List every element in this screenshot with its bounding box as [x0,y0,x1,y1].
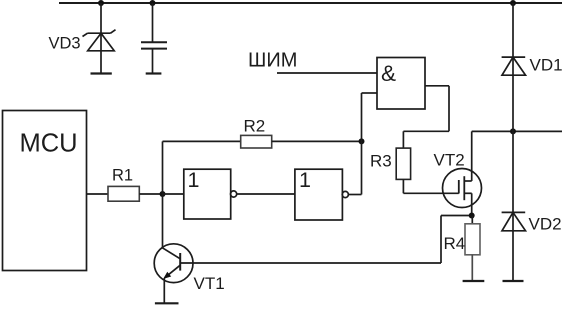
wire right rail at VD1 bottom [472,130,562,132]
svg-text:R1: R1 [112,167,133,185]
wire VT1 base up [440,216,442,264]
AND gate DD3 box [377,58,425,110]
wire AND output down [448,86,450,132]
wire node C to R4 [471,216,473,224]
wire VT1 base row [180,262,441,264]
wire node A to DD1 input [163,193,184,195]
wire VT1 collector vertical [162,194,164,248]
wire VD3 branch vertical [100,3,102,74]
wire R4 bottom to ground [471,255,473,281]
transistor VT1 (NPN) [154,244,193,283]
svg-text:ШИМ: ШИМ [248,50,297,72]
MCU block U1 [3,111,87,271]
inversion bubble DD1 output [231,191,237,197]
transistor VT2 (MOSFET) [443,169,482,208]
wire AND input 2 horizontal [362,92,378,94]
wire node B vertical (to AND input 2 and inverter DD2 output) [361,93,363,195]
svg-text:&: & [381,61,396,86]
wire ШИМ to AND input 1 [277,72,377,74]
zener diode VD3 [83,30,116,51]
wire VT1 emitter to ground [163,278,165,303]
diode VD1 [502,57,526,75]
wire R3 bottom down [402,179,404,193]
wire AND output return left [403,130,449,132]
svg-text:R4: R4 [444,234,466,253]
svg-text:VD2: VD2 [529,215,562,234]
ground under R4 [463,280,485,282]
wire DD1 out to DD2 in [237,193,295,195]
ground under VD2 [503,280,524,282]
inverter DD1 box [184,169,231,219]
wire top supply rail [59,2,562,4]
ground under VD3 [91,72,112,74]
wire DD2 out to node B vertical [348,194,361,196]
junction node B (R2 / inverter DD2 out / AND in2) [359,138,365,144]
junction top rail / VD3 [98,0,104,6]
wire R1 to node A [139,193,162,195]
ground under VT1 [155,302,179,304]
junction node C (VT2 source / R4 / VT1 base) [469,213,475,219]
resistor R1 [108,186,139,201]
svg-text:1: 1 [299,168,311,192]
junction top rail / C1 [150,0,156,6]
wire VT2 drain vertical [471,131,473,181]
svg-text:1: 1 [188,168,200,192]
wire AND output right [425,85,449,87]
junction VD1 bottom node [510,128,516,134]
capacitor C1 [141,42,167,48]
wire VT1 base to node C [441,215,472,217]
wire node A up to R2 row [162,141,164,194]
junction node A (R1 / DD1 in / R2 / VT1 collector) [160,191,166,197]
svg-text:R2: R2 [244,117,266,136]
wire R2 row left segment [163,140,241,142]
wire down to R3 [402,131,404,148]
wire MCU to R1 [87,193,109,195]
svg-text:VT1: VT1 [194,274,225,293]
wire VT2 source down to node C [471,193,473,215]
svg-text:VT2: VT2 [434,151,465,170]
wire R2 to junction B [272,140,362,142]
svg-text:VD3: VD3 [49,35,81,53]
ground under capacitor [146,72,162,74]
wire R3 to VT2 gate [403,192,458,194]
svg-text:MCU: MCU [20,130,78,158]
resistor R3 [396,148,410,179]
junction top rail / VD1 [510,0,516,6]
inversion bubble DD2 output [342,191,348,197]
wire VD1/VD2 vertical [512,3,514,281]
resistor R4 [465,224,480,255]
svg-text:VD1: VD1 [530,56,562,75]
inverter DD2 box [295,169,343,220]
diode VD2 [502,212,526,230]
svg-text:R3: R3 [370,152,392,171]
wire capacitor branch lower [152,49,154,74]
wire capacitor branch upper [152,3,154,42]
resistor R2 [241,135,272,148]
